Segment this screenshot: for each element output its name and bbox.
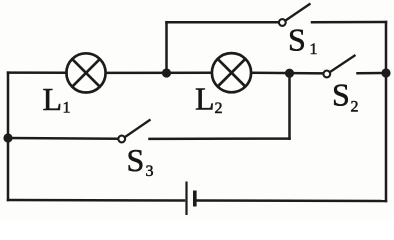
wire S3 branch left <box>8 137 117 140</box>
node A junction dot <box>162 68 171 77</box>
node B junction dot <box>285 69 294 78</box>
battery <box>187 182 195 216</box>
lamp L2 <box>212 53 251 92</box>
node C junction dot <box>381 68 390 77</box>
wire L2 to S2 <box>252 72 323 75</box>
svg-text:2: 2 <box>351 99 359 116</box>
svg-text:S: S <box>288 22 306 58</box>
wire left vertical <box>7 73 10 200</box>
svg-text:3: 3 <box>146 163 154 180</box>
svg-text:S: S <box>332 77 350 113</box>
svg-text:S: S <box>127 142 145 178</box>
svg-text:L: L <box>195 81 215 117</box>
wire S3 branch right <box>150 137 290 140</box>
switch S1 <box>279 4 311 26</box>
switch S2 <box>323 55 355 77</box>
svg-text:1: 1 <box>63 100 71 117</box>
switch S3 <box>118 120 150 143</box>
wire S2 to right node <box>358 72 387 75</box>
wire L1 to L2 <box>106 71 212 74</box>
wire top left (to S1) <box>167 21 278 24</box>
wire right vertical <box>385 22 388 201</box>
wire branch vertical at node B <box>288 73 291 138</box>
wire top right (S1 to corner) <box>312 21 386 24</box>
wire branch vertical at node A <box>165 22 168 73</box>
svg-text:2: 2 <box>215 100 223 117</box>
lamp L1 <box>66 53 105 92</box>
svg-text:L: L <box>43 81 63 117</box>
svg-text:1: 1 <box>310 41 318 58</box>
wire bottom right (from battery) <box>197 199 387 202</box>
wire bottom left (to battery) <box>8 199 184 202</box>
node D junction dot <box>3 133 12 142</box>
wire main left (to L1) <box>8 71 67 74</box>
